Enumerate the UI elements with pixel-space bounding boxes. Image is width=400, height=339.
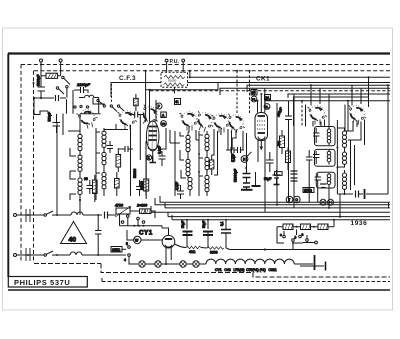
- wire big cap stack: [246, 166, 248, 189]
- svg-text:50μF: 50μF: [202, 221, 206, 228]
- choke coil mains bottom: [70, 252, 82, 255]
- resistor 20000 box: [144, 179, 149, 191]
- rectifier tube CY1 envelope: [162, 235, 175, 248]
- wire bus y77: [190, 71, 390, 77]
- wire x288 vertical: [288, 101, 290, 170]
- junction dot (98,215): [97, 214, 99, 216]
- svg-text:1936: 1936: [351, 220, 368, 227]
- circled T bulb: [286, 196, 293, 203]
- smoothing cap C1 leads: [186, 220, 188, 248]
- wire resistor join: [201, 247, 207, 250]
- wire rotor S8 extra drops: [345, 105, 365, 146]
- junction dot y249: [264, 248, 266, 250]
- capacitor osc 2 plates: [107, 146, 113, 149]
- coil stack3 winding 2: [205, 157, 209, 169]
- IF can2 coil: [327, 151, 331, 162]
- resistor 2x800 hatch: [141, 209, 151, 214]
- junction dot coil bottom: [79, 199, 81, 201]
- svg-text:PL: PL: [252, 98, 256, 102]
- resistor 30000 box: [286, 151, 291, 163]
- voltage selector box 3: [318, 224, 328, 230]
- wire rotor S7 extra drops: [306, 105, 325, 127]
- IF right coil2 leads: [337, 149, 344, 167]
- wire osc cap2 lead: [109, 141, 111, 153]
- wire cap leads: [139, 180, 141, 196]
- wire y114 row: [34, 111, 63, 135]
- wire bus drop v14: [308, 166, 310, 202]
- wire dashed heater bus y91: [150, 90, 390, 92]
- wire cap 0.1 leads: [161, 151, 163, 166]
- electrolytic 50uF plates: [273, 175, 281, 178]
- wire vertical from top bus to mixer grid: [145, 71, 147, 122]
- wire contacts: [120, 214, 139, 226]
- wire grid cap leads: [129, 114, 144, 116]
- slash arrow at H: [247, 152, 251, 156]
- mixer tube grid bars: [149, 127, 158, 141]
- resistor box osc 2: [115, 179, 120, 189]
- boxed A: [161, 112, 167, 118]
- contact stud 3: [118, 105, 120, 107]
- band switch rotor S7: [308, 106, 328, 125]
- wire IF mid frame: [180, 132, 190, 196]
- junction dots on bus y219: [186, 219, 188, 221]
- wire y150 run: [226, 149, 244, 151]
- junction dot (34,114): [33, 113, 35, 115]
- wire y225.7 run: [120, 225, 163, 227]
- lamp dial 1: [139, 261, 145, 267]
- svg-text:CY1 C43 LF1(M) C78(+1) (+: CY1 C43 LF1(M) C78(+1) (+1) C821: [215, 268, 277, 272]
- lamp dial 2: [155, 261, 161, 267]
- wire IF cap lead: [180, 185, 182, 199]
- junction dot dashed x33: [33, 82, 35, 84]
- wire selector contacts: [284, 230, 307, 244]
- wire rotor web v7: [228, 129, 232, 150]
- wire bus drop v10: [264, 172, 266, 212]
- wire meter to CY1: [142, 239, 163, 241]
- capacitor bar at end of y266: [325, 262, 327, 271]
- wire bottom y266 stub: [300, 265, 324, 267]
- output tube anode bar: [258, 115, 266, 117]
- coil stack3 winding 1: [205, 134, 209, 151]
- resistor box osc 1: [116, 155, 121, 168]
- band switch rotor S4: [192, 110, 217, 134]
- potentiometer arrow: [115, 207, 131, 218]
- wire x294 vertical: [293, 94, 295, 183]
- junction dots y225.7: [133, 225, 135, 227]
- wire CY1 cathode to right: [175, 244, 186, 248]
- osc coil winding 3: [102, 172, 106, 189]
- wire node row y98: [34, 97, 66, 99]
- IF can1 coil: [327, 129, 331, 143]
- output tube bar2: [258, 132, 266, 134]
- wire x340 down to bus: [339, 194, 341, 217]
- IF right coil 3: [342, 173, 346, 190]
- contact stud 1: [103, 105, 105, 107]
- wire padder leads: [89, 180, 91, 194]
- capacitor under mixer plates: [136, 187, 143, 190]
- wire right verticals to rotor S8: [348, 77, 369, 131]
- circled O bulb: [294, 196, 301, 203]
- mains switch bottom: [44, 254, 46, 256]
- wire y113.7 horizontal: [80, 114, 101, 131]
- wire bottom y242.5 with terminal: [303, 242, 315, 244]
- IF right coil 1: [342, 131, 346, 148]
- wire vertical x237 from top bus (dashed): [236, 71, 238, 113]
- capacitor 2100pF plates: [81, 87, 84, 93]
- IF can3 cap plates: [315, 177, 322, 180]
- wire T2 top leads: [258, 88, 265, 112]
- svg-text:500pF: 500pF: [48, 112, 52, 122]
- output tube grid dots row3: [257, 128, 265, 130]
- heater winding humps: [206, 259, 294, 264]
- selector contact d: [306, 239, 309, 242]
- smoothing cap C3 leads: [225, 220, 227, 248]
- svg-text:0,1: 0,1: [220, 221, 224, 226]
- junction dot x249 bus82: [249, 82, 251, 84]
- junction dot top bus x249: [248, 70, 250, 72]
- potentiometer 4700 box: [116, 208, 130, 214]
- junction dot PU drop: [174, 89, 176, 91]
- smoothing cap C3 plates: [221, 230, 231, 234]
- resistor box aerial series: [46, 73, 58, 78]
- wire bus drop v13: [293, 183, 295, 208]
- choke coil mains top: [71, 212, 83, 215]
- mixer tube hatch: [148, 121, 157, 151]
- svg-text:5000pF: 5000pF: [37, 75, 41, 87]
- svg-text:40Ω: 40Ω: [189, 250, 196, 254]
- wire mid bus y207.9: [165, 203, 390, 208]
- svg-text:0,1μF: 0,1μF: [232, 154, 236, 162]
- wire tap coil1: [68, 131, 80, 154]
- wire chassis dash-dot bottom left: [34, 264, 390, 278]
- switch contact circles upper: [62, 76, 64, 78]
- selector contact a: [299, 235, 302, 238]
- heater end bar: [314, 255, 316, 270]
- junction dots stack3: [198, 153, 200, 155]
- arrow head on cathode lead: [260, 147, 264, 151]
- band switch rotor S2: [137, 103, 163, 128]
- svg-text:CK1: CK1: [256, 76, 270, 83]
- wire bus drop v15: [317, 186, 319, 202]
- band switch rotor S1: [118, 111, 138, 130]
- capacitor 500pF plates: [53, 123, 61, 127]
- band switch rotor S0: [76, 107, 100, 130]
- junction dot (41,98): [40, 97, 42, 99]
- output tube leads with arrow: [260, 141, 262, 150]
- suppressor caps across mains: [26, 209, 30, 261]
- IF can3 coil: [327, 174, 331, 185]
- wire to bottom rail: [226, 248, 230, 250]
- wire osc resistor leads: [117, 148, 119, 196]
- zigzag resistor 40ohm: [186, 246, 201, 249]
- IF can1 cap plates: [313, 133, 320, 136]
- resistor hatch: [134, 99, 139, 106]
- switch blade lines: [59, 78, 71, 97]
- output capacitor end bar: [364, 189, 366, 199]
- resistor small stack3: [210, 160, 214, 169]
- coil aerial small (3 loops): [85, 95, 94, 97]
- wire bottom y250: [230, 249, 390, 251]
- junction dot x334 bus: [333, 219, 335, 221]
- band switch rotor S6: [224, 112, 248, 135]
- capacitor below can2 plates: [320, 184, 327, 188]
- mixer tube cathode lead: [152, 151, 154, 156]
- wire T2 bottom leads: [258, 139, 265, 172]
- wire rotor web v5: [212, 129, 214, 155]
- wire switch contact studs row: [111, 84, 113, 103]
- wire bus y89.8 left of P.U.: [146, 89, 218, 91]
- schematic outer border top: [8, 52, 390, 54]
- aerial coil winding 2: [78, 155, 82, 172]
- wire rotor web v1: [162, 128, 166, 149]
- junction dot earth at dashed bus: [60, 70, 62, 72]
- contact stud 4: [97, 99, 99, 101]
- wire 502 leads: [281, 130, 283, 154]
- output tube cathode arc: [258, 137, 265, 140]
- wire dashed left vertical 2: [33, 71, 35, 263]
- wire far right vertical: [366, 85, 388, 194]
- wire osc coil connections: [96, 128, 104, 196]
- junction dot x388 top: [387, 84, 389, 86]
- boxed 65: [251, 90, 257, 96]
- IF right coil3 leads: [344, 170, 346, 194]
- capacitor far pair 1 plates: [291, 171, 298, 174]
- pick-up dashed box: [161, 72, 188, 87]
- pick-up terminals P.U.: [165, 59, 184, 72]
- mixer tube C1 envelope: [146, 121, 159, 151]
- junction dot x277 bus: [276, 204, 278, 206]
- capacitor 5000pF plates: [38, 87, 46, 91]
- wire osc frame left: [95, 128, 97, 200]
- aerial terminal A: [40, 59, 43, 62]
- wire bus drop v16: [328, 187, 330, 208]
- mixer tube base: [148, 148, 157, 150]
- wire vertical x277: [276, 103, 278, 160]
- svg-text:155Ω: 155Ω: [304, 189, 312, 193]
- contact stud 2: [110, 105, 112, 107]
- svg-text:4700: 4700: [115, 204, 123, 208]
- junction dots selector: [296, 226, 298, 228]
- lamp on bus 1: [320, 199, 326, 205]
- selector box1 hatch: [285, 224, 293, 230]
- resistor box hatch: [48, 73, 57, 78]
- terminal circle on y242.5: [315, 241, 318, 244]
- resistor 1552 box: [275, 172, 283, 176]
- osc coil winding 2: [102, 152, 106, 164]
- wire mixer top leads: [150, 90, 157, 122]
- svg-text:185Ω: 185Ω: [112, 248, 121, 252]
- junction dot heater: [165, 263, 167, 265]
- svg-text:2100pF: 2100pF: [76, 83, 91, 87]
- schematic outer border bottom: [8, 289, 390, 291]
- title box PHILIPS 537U: [8, 277, 87, 288]
- capacitor series mains end: [105, 212, 108, 219]
- wire y194 to output caps: [337, 193, 353, 195]
- junction dot top bus x145: [145, 70, 147, 72]
- resistor 20000 hatch: [144, 180, 149, 191]
- wire mains top: [17, 214, 103, 216]
- wire rotor web v8: [231, 131, 233, 162]
- svg-text:4: 4: [124, 258, 126, 262]
- coil stack3 winding 3: [205, 175, 209, 192]
- junction dot (344,194): [344, 193, 346, 195]
- resistor 502 hatch: [280, 137, 285, 145]
- wire resistor leads to rail: [94, 175, 96, 202]
- wire mains bottom: [17, 254, 127, 256]
- wire left branch x34 down: [33, 98, 35, 114]
- schematic outer border left: [7, 54, 9, 278]
- junction dot (98,255): [97, 254, 99, 256]
- wire can1 internals: [316, 128, 329, 146]
- wire tap coil2: [70, 148, 80, 178]
- wire switch cluster drops: [67, 90, 74, 114]
- junction dot at P.U. bus: [189, 70, 191, 72]
- wire resistor leads: [211, 155, 213, 175]
- resistor 155 box: [303, 188, 314, 193]
- wire can3 internals: [318, 173, 329, 187]
- wire verticals under mixer: [131, 94, 147, 196]
- junction dot mixer top: [149, 89, 151, 91]
- big capacitor stack plates 1: [243, 174, 251, 178]
- junction dot can column 1: [336, 147, 338, 149]
- junction dot (34,98): [33, 97, 35, 99]
- junction dot x340 bus: [339, 216, 341, 218]
- svg-text:b: b: [295, 236, 297, 240]
- svg-text:50000: 50000: [168, 79, 177, 83]
- svg-text:502: 502: [277, 141, 281, 146]
- svg-text:TS: TS: [161, 122, 165, 126]
- junction dot x311: [310, 84, 312, 86]
- wire right edge jog: [388, 202, 390, 208]
- svg-text:50000: 50000: [133, 169, 137, 178]
- wire bus drop v12: [288, 170, 290, 202]
- junction dot x288 bus: [288, 201, 290, 203]
- wire bus y94: [288, 94, 390, 98]
- output capacitor plates pair: [356, 191, 359, 198]
- wire dashed top bus 2: [34, 70, 390, 72]
- pilot meter W circle: [134, 236, 141, 243]
- junction dot aerial at dashed bus: [40, 64, 42, 66]
- junction dot selector bottom: [292, 242, 294, 244]
- wire frame left of aerial coils: [56, 122, 58, 215]
- svg-text:2×800: 2×800: [136, 204, 147, 208]
- selector contact c: [283, 235, 286, 238]
- wire bus y85: [247, 85, 390, 92]
- mains switch top: [44, 214, 46, 216]
- ground mixer cathode: [150, 156, 157, 163]
- junction dot T2 lead1: [257, 100, 259, 102]
- wire coil leads: [74, 90, 99, 98]
- wire bus y100.8: [265, 101, 390, 107]
- capacitor 0.1uF mixer anode plates: [159, 156, 166, 159]
- wire stack3 frame: [199, 131, 207, 196]
- wire 269 leads: [269, 152, 271, 172]
- aerial coil winding 1: [78, 134, 82, 151]
- IF can2 cap plates: [313, 155, 320, 158]
- grid capacitor pair mixer: [135, 112, 138, 118]
- contact a: [127, 215, 130, 218]
- wire 500pF leads: [56, 114, 58, 133]
- series capacitor plates x54-60: [56, 95, 59, 101]
- svg-text:O: O: [295, 198, 298, 202]
- wire from earth terminal down: [60, 62, 62, 76]
- wire S3 drop: [188, 127, 189, 133]
- resistor osc1 hatch: [116, 156, 121, 165]
- resistor osc2 hatch: [115, 180, 120, 189]
- svg-text:0,1μF: 0,1μF: [175, 182, 179, 190]
- svg-text:a: a: [302, 233, 304, 237]
- wire resistor 20000 leads: [145, 160, 147, 199]
- wire rotor web v6: [214, 131, 218, 175]
- wire rotor web v9: [243, 131, 247, 168]
- resistor hatch: [210, 161, 214, 169]
- boxed 2A: [265, 95, 271, 101]
- wire can2 internals: [316, 150, 329, 165]
- lamp dial 3: [180, 261, 186, 267]
- capacitor across mains: [95, 231, 102, 235]
- zigzag resistor 3000: [207, 247, 224, 250]
- series capacitor pair A on y150: [231, 147, 241, 153]
- resistor box 60ohm vertical: [93, 180, 98, 194]
- wire mid bus y204.8: [155, 198, 390, 205]
- IF can box 3: [316, 172, 335, 188]
- wire bus drop v11: [276, 160, 278, 205]
- contact studs S0: [74, 106, 76, 108]
- svg-text:50μF: 50μF: [181, 221, 185, 228]
- CY1 anode plate: [165, 238, 172, 240]
- switch blade slashes: [99, 101, 124, 111]
- wire coil3 bottom to rail: [70, 171, 80, 215]
- capacitor osc grid plates: [125, 146, 128, 152]
- wire mid bus y212.3: [151, 206, 390, 212]
- capacitor 269 plates: [266, 160, 274, 163]
- wire CY1 top cap up: [161, 226, 163, 228]
- junction dot x302: [301, 100, 303, 102]
- circled P meter: [156, 103, 162, 109]
- wire humps to end bar: [294, 263, 313, 265]
- cathode circle K: [146, 155, 151, 160]
- mains terminal N: [14, 254, 17, 257]
- band switch rotor S8: [346, 104, 368, 126]
- osc coil winding 1: [102, 131, 106, 148]
- resistor small upper x134: [134, 98, 139, 105]
- wire meter leads: [127, 230, 146, 240]
- lamp dial 4: [193, 261, 199, 267]
- capacitor at x288 plates: [285, 116, 292, 120]
- boxed 41: [175, 99, 181, 105]
- wire 1852 leads: [122, 248, 126, 250]
- wire dashed left vertical 1: [20, 65, 22, 264]
- IF coil mid winding 2: [186, 159, 190, 176]
- capacitor left of can2 plates: [306, 157, 313, 160]
- wire osc grid cap leads: [119, 148, 133, 150]
- wire selector row: [277, 226, 334, 228]
- wire cap leads: [97, 215, 99, 255]
- svg-text:PHILIPS 537U: PHILIPS 537U: [14, 278, 70, 287]
- wire from aerial terminal down: [40, 62, 42, 98]
- svg-text:20000: 20000: [140, 181, 144, 190]
- capacitor padder aerial: [87, 186, 94, 189]
- wire between caps: [359, 193, 364, 195]
- svg-text:TL: TL: [265, 105, 269, 109]
- IF can box 2: [315, 149, 336, 166]
- wire S5 S6 drops: [221, 129, 236, 151]
- svg-text:C.F.3: C.F.3: [119, 75, 136, 82]
- wire rotor web v4: [196, 130, 199, 140]
- IF can box 1: [315, 127, 336, 146]
- voltage selector box 2: [301, 224, 311, 230]
- selector box2 hatch: [303, 224, 311, 230]
